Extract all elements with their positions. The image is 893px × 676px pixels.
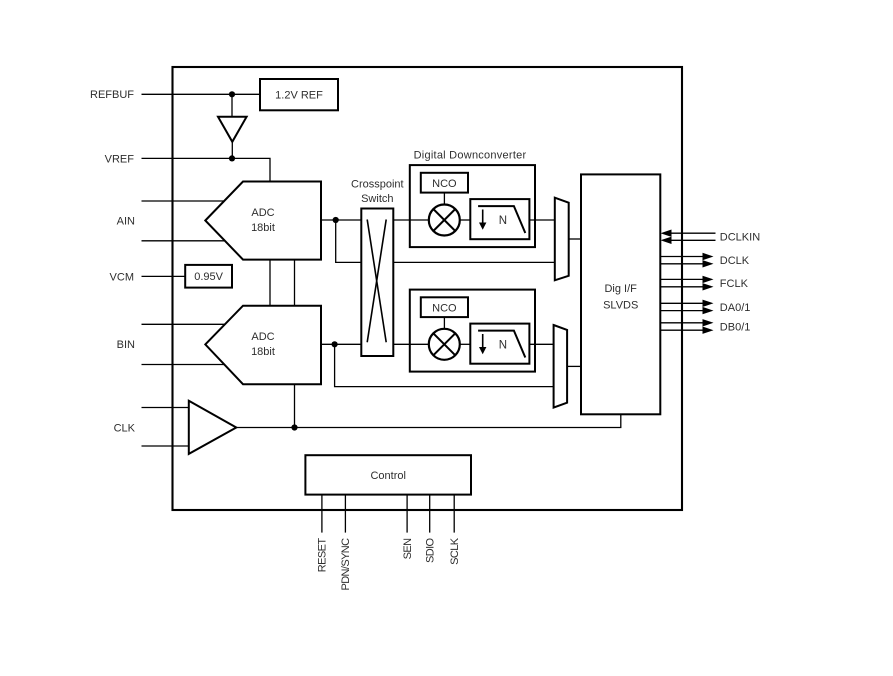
- wire NCO B to mixer B: [443, 317, 445, 329]
- chip boundary: [173, 67, 683, 510]
- wire clock output to Dig I/F: [236, 414, 621, 427]
- crosspoint switch block: [361, 209, 393, 357]
- svg-text:N: N: [499, 215, 507, 227]
- wire ADC B bypass under switch to mux B: [335, 344, 554, 386]
- wire CLK-: [142, 445, 189, 447]
- svg-text:ADC: ADC: [251, 331, 274, 343]
- svg-text:N: N: [499, 339, 507, 351]
- svg-text:DA0/1: DA0/1: [720, 302, 751, 314]
- wire DB0/1- with arrow: [660, 329, 703, 331]
- NCO A block: [421, 173, 468, 193]
- node REFBUF junction: [229, 91, 235, 97]
- svg-text:VCM: VCM: [110, 271, 134, 283]
- mux B (trapezoid): [554, 325, 568, 408]
- wire SEN pin: [406, 495, 408, 533]
- block Control: [305, 455, 471, 494]
- svg-text:1.2V REF: 1.2V REF: [275, 90, 323, 102]
- node ADC B output junction: [332, 341, 338, 347]
- node VREF junction: [229, 155, 235, 161]
- svg-text:Dig I/F: Dig I/F: [604, 283, 637, 295]
- DDC A block: [410, 165, 535, 247]
- wire FCLK- with arrow: [660, 286, 703, 288]
- svg-text:Crosspoint: Crosspoint: [351, 179, 404, 191]
- svg-text:DCLK: DCLK: [720, 255, 750, 267]
- wire VREF: [142, 158, 271, 181]
- svg-text:SEN: SEN: [402, 538, 414, 559]
- wire REFBUF: [142, 93, 261, 95]
- svg-text:RESET: RESET: [317, 538, 329, 573]
- ADC B (18 bit): [205, 306, 321, 385]
- node clock junction: [291, 424, 297, 430]
- wire SDIO pin: [429, 495, 431, 533]
- decimation filter A (divide by N): [470, 199, 529, 239]
- svg-text:DB0/1: DB0/1: [720, 322, 751, 334]
- mixer A (multiplier): [429, 205, 460, 236]
- svg-text:NCO: NCO: [432, 303, 457, 315]
- wire clock ADC B to clock line: [294, 384, 296, 427]
- wire REFBUF to buffer: [231, 94, 233, 116]
- wire DCLK- with arrow: [660, 263, 703, 265]
- svg-text:BIN: BIN: [117, 339, 135, 351]
- wire ADC A output: [321, 219, 361, 221]
- svg-text:SLVDS: SLVDS: [603, 299, 638, 311]
- wire switch to mixer A: [393, 219, 429, 221]
- svg-text:Switch: Switch: [361, 193, 393, 205]
- wire mixer B to filter B: [460, 343, 471, 345]
- clock buffer U2 (right-pointing triangle): [189, 401, 237, 454]
- wire AIN+: [142, 200, 225, 202]
- svg-text:CLK: CLK: [114, 422, 136, 434]
- wire PDN/SYNC pin: [344, 495, 346, 533]
- wire filter A to mux A: [529, 219, 554, 221]
- svg-text:AIN: AIN: [117, 216, 135, 228]
- wire BIN+: [142, 323, 225, 325]
- wire filter B to mux B: [529, 343, 553, 345]
- svg-text:PDN/SYNC: PDN/SYNC: [340, 538, 352, 591]
- wire ADC A bypass to switch: [336, 220, 362, 262]
- wire DCLKIN- with arrow into block: [668, 239, 716, 241]
- svg-text:18bit: 18bit: [251, 346, 275, 358]
- svg-text:DCLKIN: DCLKIN: [720, 232, 760, 244]
- svg-text:18bit: 18bit: [251, 222, 275, 234]
- wire SCLK pin: [453, 495, 455, 533]
- wire DA0/1+ with arrow: [660, 302, 703, 304]
- wire DCLKIN+ with arrow into block: [668, 232, 716, 234]
- svg-text:REFBUF: REFBUF: [90, 89, 134, 101]
- NCO B block: [421, 297, 468, 317]
- wire buffer to VREF: [231, 142, 233, 159]
- block 0.95V: [185, 265, 232, 288]
- svg-text:SCLK: SCLK: [449, 537, 461, 565]
- wire DB0/1+ with arrow: [660, 322, 703, 324]
- svg-text:0.95V: 0.95V: [194, 271, 223, 283]
- svg-text:Control: Control: [370, 470, 405, 482]
- wire VCM: [142, 275, 186, 277]
- block 1.2V REF: [260, 79, 338, 110]
- wire switch to mixer B: [393, 343, 429, 345]
- wire VREF between ADCs: [269, 260, 271, 306]
- svg-text:ADC: ADC: [251, 207, 274, 219]
- DDC B block: [410, 290, 535, 372]
- wire clock between ADCs: [294, 260, 296, 306]
- wire CLK+: [142, 407, 189, 409]
- wire BIN-: [142, 364, 225, 366]
- wire AIN-: [142, 240, 225, 242]
- wire mux A to Dig I/F: [569, 238, 581, 240]
- wire mixer A to filter A: [460, 219, 471, 221]
- block Dig I/F SLVDS: [581, 174, 660, 414]
- mux A (trapezoid): [555, 198, 569, 281]
- svg-text:VREF: VREF: [105, 153, 135, 165]
- wire DA0/1- with arrow: [660, 310, 703, 312]
- svg-text:Digital Downconverter: Digital Downconverter: [414, 149, 527, 161]
- wire switch bypass to mux A: [393, 261, 555, 263]
- wire RESET pin: [321, 495, 323, 533]
- svg-text:FCLK: FCLK: [720, 278, 749, 290]
- wire mux B to Dig I/F: [567, 365, 581, 367]
- svg-text:NCO: NCO: [432, 178, 457, 190]
- wire DCLK+ with arrow: [660, 256, 703, 258]
- svg-text:SDIO: SDIO: [425, 537, 437, 563]
- decimation filter B (divide by N): [470, 324, 529, 364]
- wire NCO A to mixer A: [443, 193, 445, 205]
- node ADC A output junction: [333, 217, 339, 223]
- wire ADC B output: [321, 343, 361, 345]
- wire FCLK+ with arrow: [660, 278, 703, 280]
- mixer B (multiplier): [429, 329, 460, 360]
- ADC A (18 bit): [205, 182, 321, 260]
- buffer U1 (reference buffer, down-pointing): [218, 117, 247, 142]
